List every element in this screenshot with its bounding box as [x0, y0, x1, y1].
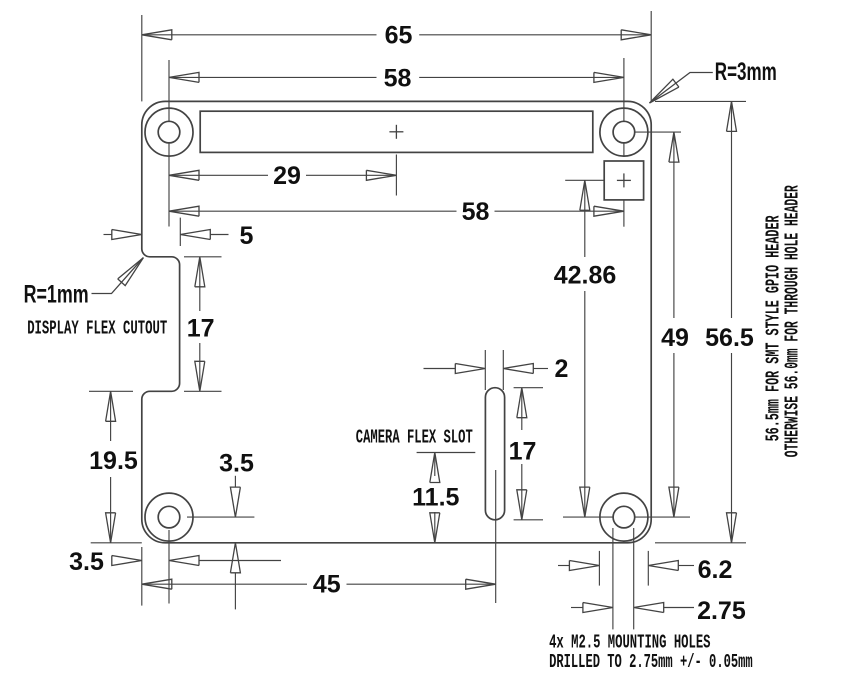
extension line board left edge extended down (45 and 3.5 dims) [141, 547, 143, 606]
label R=1mm [24, 281, 89, 309]
svg-text:R=1mm: R=1mm [24, 281, 89, 309]
extension line camera slot center horizontal (11.5 dim) [417, 452, 476, 454]
extension line slot bottom extended right (17 dim) [514, 519, 543, 521]
leader R=3mm [650, 73, 713, 104]
dimension 58 top label [384, 64, 412, 92]
svg-text:42.86: 42.86 [554, 261, 617, 289]
dimension 2 arrows [424, 364, 549, 374]
svg-text:17: 17 [509, 438, 537, 466]
note DRILLED TO 2.75mm +/- 0.05mm [549, 651, 753, 673]
vertical note 56.5mm FOR SMT STYLE GPIO HEADER [763, 215, 785, 441]
centerline hole TL vertical [168, 60, 170, 227]
extension line GPIO center vertical (29 dim) [395, 155, 397, 196]
GPIO header outline [200, 111, 593, 152]
extension line drill left tangent (2.75 dim) [612, 528, 614, 629]
dimension 17 slot label [509, 438, 537, 466]
svg-text:29: 29 [273, 162, 301, 190]
svg-text:OTHERWISE 56.0mm FOR THROUGH H: OTHERWISE 56.0mm FOR THROUGH HOLE HEADER [782, 185, 804, 457]
dimension 58 bottom label [462, 198, 490, 226]
dimension 11.5 label [412, 483, 459, 511]
extension line notch top edge extended right (17 dim) [184, 256, 222, 258]
extension line top edge extended right (56.5 dim) [655, 100, 746, 102]
dimension 2.75 arrows [571, 603, 694, 613]
svg-text:11.5: 11.5 [412, 483, 459, 511]
extension line board left edge extended up (65 dim) [141, 15, 143, 101]
leader R=1mm [92, 258, 144, 294]
label R=3mm [715, 58, 777, 86]
dimension 29 label [273, 162, 301, 190]
svg-text:6.2: 6.2 [698, 556, 733, 584]
dimension 65 label [385, 21, 413, 49]
square component center mark [617, 173, 631, 187]
dimension 56.5 label [705, 324, 754, 352]
svg-text:5: 5 [240, 222, 254, 250]
extension line board right edge extended up (65 dim) [650, 11, 652, 101]
svg-text:CAMERA FLEX SLOT: CAMERA FLEX SLOT [356, 427, 473, 449]
svg-text:4x M2.5 MOUNTING HOLES: 4x M2.5 MOUNTING HOLES [549, 631, 710, 653]
board outline with display flex cutout [142, 101, 651, 542]
dimension 17 left label [187, 315, 215, 343]
dimension 56.5 line [727, 101, 737, 542]
dimension 42.86 label [554, 261, 617, 289]
svg-text:56.5: 56.5 [705, 324, 754, 352]
svg-text:2: 2 [555, 355, 569, 383]
centerline hole TR vertical [623, 58, 625, 227]
note 4x M2.5 MOUNTING HOLES [549, 631, 710, 653]
extension line bottom edge extended left (19.5 dim) [91, 542, 142, 544]
extension line bottom edge extended right (56.5 dim) [655, 542, 746, 544]
GPIO header center mark [389, 125, 403, 139]
square component outline [604, 161, 643, 200]
dimension 45 label [313, 570, 341, 598]
vertical note OTHERWISE 56.0mm FOR THROUGH HOLE HEADER [782, 185, 804, 457]
label CAMERA FLEX SLOT [356, 427, 473, 449]
svg-text:DRILLED TO 2.75mm +/- 0.05mm: DRILLED TO 2.75mm +/- 0.05mm [549, 651, 753, 673]
dimension 3.5 vertical label [219, 449, 254, 477]
dimension 17 slot line [517, 388, 527, 520]
extension line notch bottom edge extended right (17 dim) [184, 390, 222, 392]
dimension 6.2 label [698, 556, 733, 584]
dimension 58 bottom line [169, 206, 624, 216]
mounting hole bottom-left [145, 493, 193, 541]
extension line camera slot left (2 dim) [484, 350, 486, 390]
extension line square center to left (42.86 dim) [565, 179, 604, 181]
dimension 65 line [142, 30, 651, 40]
camera flex slot [485, 388, 504, 520]
extension line notch bottom edge extended left (19.5 dim) [89, 390, 133, 392]
svg-text:65: 65 [385, 21, 413, 49]
dimension 17 left line [195, 257, 205, 392]
dimension 11.5 line [430, 453, 440, 543]
svg-text:R=3mm: R=3mm [715, 58, 777, 86]
centerline hole BR horizontal (42.86 and 49 dims) [563, 516, 690, 518]
extension line drill right tangent (2.75 dim) [633, 528, 635, 629]
extension line hole BR pad right (6.2 dim) [647, 551, 649, 586]
extension line hole BR pad left (6.2 dim) [598, 551, 600, 586]
dimension 3.5 vertical arrows [230, 476, 240, 610]
svg-text:58: 58 [462, 198, 490, 226]
extension line slot top extended right (17 dim) [514, 387, 543, 389]
svg-text:3.5: 3.5 [219, 449, 254, 477]
label DISPLAY FLEX CUTOUT [27, 318, 167, 340]
svg-text:3.5: 3.5 [69, 548, 104, 576]
centerline camera slot vertical (45 and 11.5 dims) [495, 470, 497, 603]
svg-text:49: 49 [661, 324, 689, 352]
svg-text:2.75: 2.75 [697, 597, 746, 625]
dimension 42.86 line [580, 180, 590, 517]
svg-text:45: 45 [313, 570, 341, 598]
dimension 58 top line [169, 72, 624, 82]
dimension 2 label [555, 355, 569, 383]
dimension 3.5 horizontal label [69, 548, 104, 576]
mounting hole top-right [600, 108, 648, 156]
svg-text:19.5: 19.5 [89, 447, 138, 475]
svg-text:58: 58 [384, 64, 412, 92]
mounting hole top-left [145, 108, 193, 156]
dimension 19.5 label [89, 447, 138, 475]
dimension 5 arrows [104, 230, 229, 240]
dimension 29 line [169, 170, 396, 180]
dimension 45 line [142, 579, 496, 589]
dimension 6.2 arrows [558, 561, 694, 571]
extension line camera slot right (2 dim) [502, 350, 504, 390]
svg-text:DISPLAY FLEX CUTOUT: DISPLAY FLEX CUTOUT [27, 318, 167, 340]
dimension 19.5 line [106, 391, 116, 543]
dimension 2.75 label [697, 597, 746, 625]
svg-text:17: 17 [187, 315, 215, 343]
extension line cutout edge (5 dim) [179, 218, 181, 246]
dimension 49 label [661, 324, 689, 352]
dimension 5 label [240, 222, 254, 250]
dimension 49 line [669, 132, 679, 517]
centerline hole BL vertical (3.5 dim extension) [168, 530, 170, 604]
mounting hole bottom-right [600, 493, 648, 541]
centerline hole TR horizontal (49 dim extension) [634, 131, 681, 133]
centerline hole BL horizontal (3.5 dim) [187, 516, 254, 518]
dimension 3.5 horizontal arrows [112, 556, 281, 566]
